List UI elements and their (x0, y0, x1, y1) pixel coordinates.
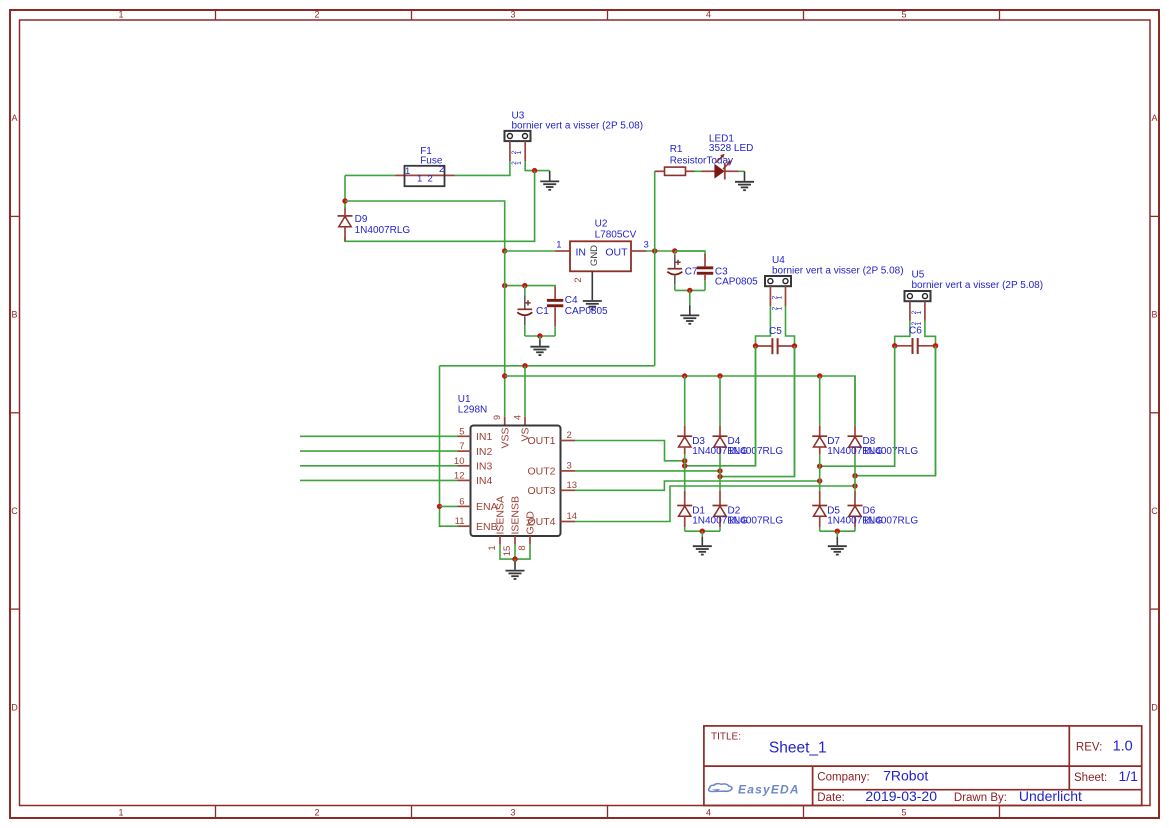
capacitor C7 (electrolytic) (667, 251, 682, 290)
svg-text:IN4: IN4 (476, 475, 493, 487)
svg-text:Sheet:: Sheet: (1074, 772, 1107, 784)
wire D4 anode to D2 cathode (719, 454, 721, 491)
svg-text:L298N: L298N (458, 405, 487, 416)
wire input IN1 (300, 435, 458, 437)
junction VS pin on +5V bus (522, 363, 527, 368)
svg-text:C6: C6 (909, 326, 922, 337)
diode D8 cathode stub (854, 426, 856, 437)
wire C7 C3 bottom rail (675, 289, 705, 291)
svg-text:C4: C4 (565, 295, 578, 306)
wire input IN2 (300, 450, 458, 452)
U1 pin 13 OUT3 stub (561, 489, 576, 491)
wire C6 right down to OUT4 row (935, 346, 937, 476)
IC U1 L298N body (471, 426, 561, 537)
terminal block U4 pin numbers (772, 295, 784, 310)
svg-text:6: 6 (459, 496, 464, 507)
svg-text:ISENSA: ISENSA (495, 496, 507, 535)
wire OUT2 to motor A terminal 2 (720, 346, 795, 477)
wire input node to regulator IN column (345, 201, 505, 251)
junction C1/C4 ground node (537, 333, 542, 338)
junction OUT4 branch upper (852, 473, 857, 478)
svg-text:2: 2 (314, 10, 319, 20)
terminal block U3 (505, 131, 531, 141)
svg-text:1N4007RLG: 1N4007RLG (863, 515, 919, 526)
diode D6 cathode stub (854, 491, 856, 506)
U2 GND pin line (591, 271, 593, 300)
svg-text:3: 3 (510, 10, 515, 20)
svg-text:bornier vert a visser (2P 5.08: bornier vert a visser (2P 5.08) (512, 120, 644, 131)
diode D8 anode stub (854, 447, 856, 454)
svg-text:2: 2 (428, 174, 433, 185)
junction C6 left (892, 343, 897, 348)
junction OUT3 at D7 column (817, 478, 822, 483)
svg-text:3: 3 (567, 460, 572, 471)
wire +5V node up to R1 (654, 171, 656, 251)
wire ENA branch (440, 505, 458, 507)
diode D3 anode stub (684, 447, 686, 454)
svg-text:Fuse: Fuse (420, 156, 443, 167)
junction U2 IN node (502, 248, 507, 253)
svg-text:7Robot: 7Robot (883, 768, 928, 784)
svg-text:CAP0805: CAP0805 (715, 277, 758, 288)
svg-text:Company:: Company: (817, 772, 869, 784)
U1 pin 14 OUT4 stub (561, 521, 576, 523)
wire D5/D6 ground rail (820, 530, 855, 532)
svg-text:1: 1 (777, 295, 784, 299)
wire U2 OUT to +5V node (647, 250, 706, 252)
wire ENA/ENB column (440, 366, 458, 526)
U1 pin 3 OUT2 stub (561, 470, 576, 472)
U1 pin 11 ENB stub (458, 525, 471, 527)
diode D5 anode stub (819, 517, 821, 528)
diode D2 (713, 506, 728, 517)
ground near LED1 (735, 171, 754, 190)
svg-text:D: D (1151, 703, 1158, 713)
wire +12V drop to D4 cathode (719, 376, 721, 426)
LED LED1 (702, 154, 739, 180)
svg-text:5: 5 (459, 426, 464, 437)
ground under U1 (506, 559, 525, 579)
svg-text:C: C (1151, 506, 1158, 516)
svg-text:3: 3 (510, 808, 515, 818)
svg-text:U5: U5 (912, 269, 925, 280)
wire C5 right down to OUT2 row (794, 346, 796, 477)
wire U5 pin1 to C6 left (895, 321, 910, 346)
junction U1 ground node (512, 556, 517, 561)
wire D1/D2 ground rail (685, 530, 720, 532)
junction D7 top on +12V bus (817, 373, 822, 378)
wire D7 anode to D5 cathode (819, 454, 821, 491)
terminal block U4 pin 1 (769, 286, 771, 306)
wire +5V node down to bus (654, 251, 656, 366)
wire +5V to C3 top (675, 251, 705, 255)
title block (704, 726, 1142, 806)
wire input IN3 (300, 465, 458, 467)
wire OUT4 net (575, 486, 855, 522)
svg-text:1: 1 (516, 150, 523, 154)
wire +12V drop to D7 cathode (819, 376, 821, 426)
svg-text:VSS: VSS (499, 428, 511, 449)
terminal block U3 pin numbers (511, 150, 523, 165)
svg-text:1N4007RLG: 1N4007RLG (355, 225, 411, 236)
diode D2 anode stub (719, 517, 721, 528)
U1 pin 5 IN1 stub (458, 435, 471, 437)
U1 pin 2 OUT1 stub (561, 440, 576, 442)
svg-text:GND: GND (589, 245, 600, 266)
terminal block U5 pin numbers (911, 310, 923, 325)
svg-text:C5: C5 (769, 326, 782, 337)
svg-text:REV:: REV: (1076, 742, 1102, 754)
svg-text:R1: R1 (670, 144, 683, 155)
wire D6 anode to ground rail (854, 527, 856, 531)
junction OUT1 branch lower (682, 463, 687, 468)
junction OUT1 at D3 column (682, 458, 687, 463)
wire R1 to LED1 (695, 170, 702, 172)
capacitor C1 (electrolytic) (517, 286, 532, 336)
ground under C1/C4 (530, 336, 549, 355)
svg-text:3: 3 (644, 239, 649, 250)
diode D7 anode stub (819, 447, 821, 454)
svg-text:2: 2 (573, 277, 584, 282)
junction D5/D6 ground (835, 529, 840, 534)
svg-text:4: 4 (706, 808, 711, 818)
junction C7/C3 ground node (687, 288, 692, 293)
wire U4 pin1 to C5 left (756, 306, 771, 346)
diode D2 cathode stub (719, 491, 721, 506)
wire U3 pin 2 to ground junction (525, 161, 550, 171)
svg-text:TITLE:: TITLE: (711, 732, 741, 743)
svg-text:4: 4 (706, 10, 711, 20)
wire +5V bus (wire1) (440, 365, 655, 367)
terminal block U3 pin 1 (509, 141, 511, 161)
junction C7 top (672, 248, 677, 253)
junction +5V vertical (652, 248, 657, 253)
wire D5 anode to ground rail (819, 527, 821, 531)
diode D5 (812, 506, 827, 517)
U2 IN pin stub (555, 250, 570, 252)
svg-text:B: B (1151, 310, 1157, 320)
junction C5 right (792, 343, 797, 348)
svg-text:2: 2 (567, 430, 572, 441)
diode D9 cathode stub (344, 208, 346, 217)
diode D1 cathode stub (684, 491, 686, 506)
wire OUT3 to motor B terminal 1 (820, 346, 895, 466)
U1 VS pin stub (524, 417, 526, 426)
svg-text:bornier vert a visser (2P 5.08: bornier vert a visser (2P 5.08) (772, 265, 904, 276)
terminal block U5 (905, 291, 931, 301)
svg-text:ISENSB: ISENSB (510, 496, 522, 535)
wire U1 bottom pins to ground (500, 545, 530, 559)
frame row labels (11, 113, 1158, 713)
wire C1 C4 bottom rail (525, 335, 555, 337)
wire LED1 to ground (739, 170, 745, 172)
ground near U3 (540, 171, 559, 190)
wire OUT1 net (575, 441, 685, 461)
junction OUT3 branch upper (817, 464, 822, 469)
regulator U2 body (570, 241, 631, 271)
capacitor C6 (895, 338, 936, 354)
svg-text:GND: GND (525, 511, 537, 535)
junction +12V bus start (502, 373, 507, 378)
svg-text:CAP0805: CAP0805 (565, 306, 608, 317)
svg-text:OUT: OUT (605, 246, 628, 258)
diode D7 cathode stub (819, 426, 821, 437)
U1 pin 1 ISENSA stub (499, 536, 501, 545)
svg-text:OUT1: OUT1 (527, 435, 555, 447)
wire U1 ISENSB to ground (514, 545, 516, 559)
svg-text:C7: C7 (685, 266, 698, 277)
ground under D5/D6 (828, 531, 847, 554)
svg-text:U1: U1 (458, 394, 471, 405)
junction D3 top on +12V bus (682, 373, 687, 378)
svg-text:1: 1 (556, 239, 561, 250)
wire D1 anode to ground rail (684, 527, 686, 531)
svg-text:L7805CV: L7805CV (595, 229, 637, 240)
svg-text:IN1: IN1 (476, 431, 493, 443)
svg-text:1: 1 (118, 10, 123, 20)
fuse F1 (395, 166, 454, 186)
svg-text:4: 4 (513, 415, 523, 420)
U2 OUT pin stub (631, 250, 647, 252)
svg-text:U4: U4 (772, 255, 785, 266)
diode D1 (677, 506, 692, 517)
junction ENA node (437, 504, 442, 509)
svg-text:IN: IN (576, 246, 587, 258)
svg-text:IN2: IN2 (476, 446, 493, 458)
wire U5 pin2 to C6 right (925, 321, 936, 346)
junction OUT4 at D6 column (852, 483, 857, 488)
wire D2 anode to ground rail (719, 527, 721, 531)
junction C6 right (933, 343, 938, 348)
svg-text:1.0: 1.0 (1113, 739, 1133, 755)
U1 pin 15 ISENSB stub (514, 536, 516, 545)
svg-text:14: 14 (567, 511, 578, 522)
svg-text:EasyEDA: EasyEDA (738, 783, 800, 797)
svg-text:1: 1 (405, 166, 410, 177)
svg-text:1: 1 (516, 161, 523, 165)
U1 pin 7 IN2 stub (458, 450, 471, 452)
svg-text:15: 15 (502, 546, 513, 557)
svg-text:B: B (11, 310, 17, 320)
svg-text:2019-03-20: 2019-03-20 (865, 788, 937, 804)
svg-text:A: A (11, 113, 17, 123)
junction U3 ground node (532, 168, 537, 173)
wire OUT2 net (575, 470, 720, 472)
junction D4 top on +12V bus (717, 373, 722, 378)
terminal block U5 pin 2 (924, 301, 926, 321)
junction C1 top (522, 283, 527, 288)
junction C1/C4 rail at regulator column (502, 283, 507, 288)
terminal block U4 (765, 276, 791, 286)
diode D8 (848, 436, 863, 447)
svg-text:VS: VS (520, 428, 532, 442)
terminal block U5 pin 1 (909, 301, 911, 321)
wire OUT1 to motor A terminal 1 (685, 346, 756, 466)
svg-text:1: 1 (118, 808, 123, 818)
capacitor C5 (756, 338, 795, 354)
svg-text:Sheet_1: Sheet_1 (769, 740, 827, 757)
svg-text:7: 7 (459, 441, 464, 452)
diode D4 (713, 436, 728, 447)
diode D4 anode stub (719, 447, 721, 454)
svg-text:8: 8 (517, 545, 528, 550)
svg-text:1: 1 (487, 545, 498, 550)
diode D7 (812, 436, 827, 447)
wire VS pin drop (524, 366, 526, 417)
wire C6 left down to OUT3 row (894, 346, 896, 466)
svg-text:2: 2 (314, 808, 319, 818)
svg-text:C: C (11, 506, 18, 516)
wire C1 C4 top rail (505, 286, 555, 287)
svg-text:1: 1 (417, 174, 422, 185)
svg-text:D9: D9 (355, 214, 368, 225)
wire fuse input from net node (345, 174, 395, 176)
diode D9 (338, 216, 353, 227)
svg-text:OUT2: OUT2 (527, 466, 555, 478)
svg-text:3528 LED: 3528 LED (709, 143, 753, 154)
wire D8 anode to D6 cathode (854, 454, 856, 491)
svg-text:5: 5 (901, 808, 906, 818)
junction OUT2 at D4 column (717, 468, 722, 473)
junction OUT2 branch lower (717, 474, 722, 479)
svg-text:1: 1 (916, 310, 923, 314)
ground under D1/D2 (693, 531, 712, 554)
U1 pin 10 IN3 stub (458, 465, 471, 467)
svg-text:13: 13 (567, 480, 578, 491)
EasyEDA logo (709, 784, 732, 792)
U1 pin 12 IN4 stub (458, 479, 471, 481)
wire +12V drop to D8 cathode (854, 376, 856, 426)
wire D3 anode to D1 cathode (684, 454, 686, 491)
diode D5 cathode stub (819, 491, 821, 506)
svg-text:Drawn By:: Drawn By: (954, 792, 1007, 804)
junction D9 input node (342, 198, 347, 203)
svg-text:1N4007RLG: 1N4007RLG (728, 515, 784, 526)
svg-text:5: 5 (901, 10, 906, 20)
wire +12V drop to D3 cathode (684, 376, 686, 426)
ground under C7/C3 (680, 290, 699, 323)
svg-text:A: A (1151, 113, 1157, 123)
frame column labels (118, 10, 906, 818)
svg-text:OUT3: OUT3 (527, 485, 555, 497)
diode D4 cathode stub (719, 426, 721, 437)
svg-text:1/1: 1/1 (1119, 768, 1139, 784)
wire input IN4 (300, 479, 458, 481)
capacitor C3 (ceramic) (697, 254, 713, 290)
wire C5 left down to OUT1 row (755, 346, 757, 466)
svg-text:C1: C1 (536, 306, 549, 317)
wire D9 cathode up to input node (344, 175, 346, 207)
wire +12V column through to VSS (504, 251, 506, 417)
diode D6 (848, 506, 863, 517)
junction D1/D2 ground (700, 529, 705, 534)
wire +12V junction down to D9 rail (345, 171, 535, 242)
diode D3 (677, 436, 692, 447)
terminal block U3 pin 2 (524, 141, 526, 161)
svg-text:Date:: Date: (817, 792, 845, 804)
diode D6 anode stub (854, 517, 856, 528)
svg-text:IN3: IN3 (476, 461, 493, 473)
diode D1 anode stub (684, 517, 686, 528)
svg-text:bornier vert a visser (2P 5.08: bornier vert a visser (2P 5.08) (912, 280, 1044, 291)
svg-text:11: 11 (455, 516, 465, 527)
U1 pin 8 GND stub (529, 536, 531, 545)
U1 VSS pin stub (504, 417, 506, 426)
capacitor C4 (ceramic) (547, 287, 563, 337)
diode D3 cathode stub (684, 426, 686, 437)
svg-text:1: 1 (777, 306, 784, 310)
junction C5 left (753, 343, 758, 348)
wire U4 pin2 to C5 right (786, 306, 795, 346)
svg-text:9: 9 (492, 415, 502, 420)
resistor R1 (655, 167, 695, 175)
svg-text:U2: U2 (595, 219, 608, 230)
wire OUT4 to motor B terminal 2 (855, 346, 936, 476)
ground under U2 pin 2 (583, 300, 602, 309)
svg-text:1N4007RLG: 1N4007RLG (863, 446, 919, 457)
terminal block U4 pin 2 (785, 286, 787, 306)
wire OUT3 net (575, 481, 820, 490)
wire fuse to U3 pin 1 (455, 161, 510, 175)
wire +12V bus (wire2) (505, 376, 855, 426)
svg-text:D: D (11, 703, 18, 713)
U1 pin 6 ENA stub (458, 505, 471, 507)
wire to U2 IN pin (505, 250, 555, 252)
diode D9 anode stub (344, 227, 346, 241)
svg-text:Underlicht: Underlicht (1019, 788, 1082, 804)
